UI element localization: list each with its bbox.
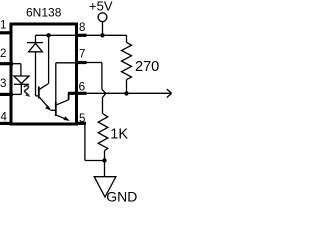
svg-text:1: 1 (0, 20, 6, 32)
svg-text:270: 270 (135, 59, 159, 75)
svg-text:8: 8 (79, 22, 85, 34)
svg-text:4: 4 (1, 112, 8, 124)
svg-text:3: 3 (0, 78, 6, 90)
svg-text:7: 7 (79, 48, 85, 60)
svg-text:+5V: +5V (89, 0, 113, 14)
svg-text:1K: 1K (110, 127, 128, 143)
svg-text:GND: GND (106, 189, 137, 205)
svg-text:2: 2 (0, 48, 6, 60)
svg-text:6N138: 6N138 (26, 6, 62, 20)
svg-text:6: 6 (79, 79, 86, 93)
svg-text:5: 5 (79, 113, 85, 125)
